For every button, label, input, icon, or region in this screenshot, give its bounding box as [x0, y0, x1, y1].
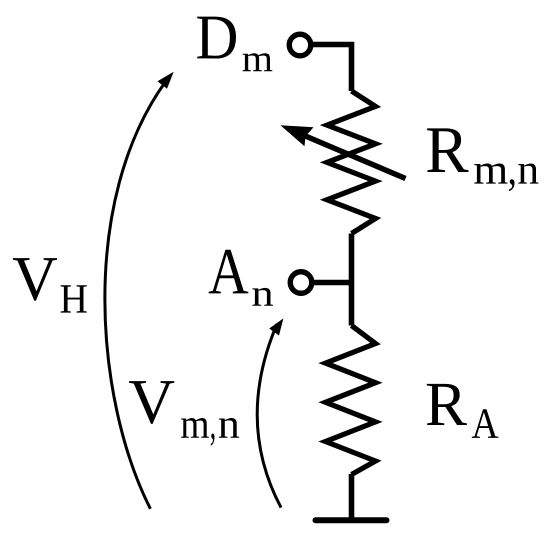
terminal circle D_m: [289, 34, 311, 56]
label V_m,n: [129, 381, 239, 446]
terminal circle A_n: [290, 272, 312, 294]
label R_A: [427, 384, 499, 438]
arrow V_m,n (short curved arrow): [257, 318, 283, 507]
node A_n label: [209, 250, 273, 306]
label R_m,n: [427, 128, 538, 191]
wire from A_n terminal to junction: [314, 280, 352, 286]
wire from R_A to ground: [349, 474, 355, 520]
wire from D_m terminal to resistor R_m,n top: [313, 45, 352, 92]
resistor R_A zigzag: [326, 326, 376, 475]
wire between R_m,n and R_A with A_n junction: [349, 234, 355, 326]
arrow V_H (long curved arrow): [105, 72, 174, 509]
node D_m label: [197, 17, 272, 72]
label V_H: [13, 258, 87, 313]
ground bar: [316, 517, 387, 523]
resistor R_m,n zigzag (potentiometer body): [327, 91, 376, 234]
potentiometer wiper arrow of R_m,n: [280, 125, 405, 178]
